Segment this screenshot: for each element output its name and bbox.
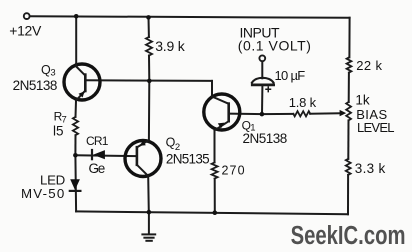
svg-text:10 µF: 10 µF (275, 68, 306, 83)
svg-text:l5: l5 (53, 123, 64, 138)
svg-text:3: 3 (50, 67, 55, 78)
svg-text:3.9 k: 3.9 k (155, 38, 186, 54)
svg-text:1k: 1k (355, 93, 370, 108)
svg-text:1.8 k: 1.8 k (289, 95, 317, 110)
svg-text:MV-50: MV-50 (21, 186, 65, 201)
svg-text:3.3 k: 3.3 k (355, 161, 386, 176)
svg-text:270: 270 (222, 164, 246, 178)
svg-text:2N5135: 2N5135 (166, 151, 209, 166)
svg-text:2N5138: 2N5138 (13, 78, 57, 93)
svg-text:2N5138: 2N5138 (243, 131, 287, 146)
svg-text:Ge: Ge (89, 161, 105, 176)
svg-text:LEVEL: LEVEL (357, 120, 394, 135)
svg-text:(0.1 VOLT): (0.1 VOLT) (238, 37, 312, 53)
svg-text:CR1: CR1 (86, 134, 109, 148)
svg-text:SeekIC.com: SeekIC.com (291, 221, 406, 250)
svg-text:+12V: +12V (9, 22, 42, 38)
svg-text:22 k: 22 k (356, 58, 382, 73)
